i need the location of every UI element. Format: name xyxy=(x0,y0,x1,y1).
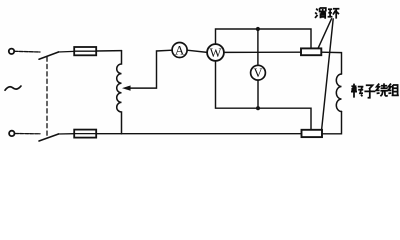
绕 right 尧 xyxy=(380,83,387,96)
fuse FU2 element wire xyxy=(74,133,96,135)
fuse FU1 (top) xyxy=(74,47,96,55)
组 left 纟 xyxy=(388,84,391,94)
绕 left 纟 xyxy=(376,84,379,94)
label 滑环 (slip rings), hand-drawn glyph strokes xyxy=(315,8,339,19)
wire voltmeter upper lead xyxy=(257,29,259,65)
switch S blade top xyxy=(39,52,59,59)
svg-text:V: V xyxy=(253,66,262,80)
环 left 王 xyxy=(328,9,333,16)
label 转子绕组 (rotor winding), hand-drawn glyph strokes xyxy=(351,83,399,97)
AC source tilde symbol xyxy=(5,86,21,90)
rotor winding coil xyxy=(336,74,341,112)
terminal top (input circle) xyxy=(9,49,14,54)
环 right 不 xyxy=(333,9,339,19)
转 right 专 xyxy=(358,87,364,97)
wire terminal-top to switch xyxy=(14,50,40,53)
terminal bottom (input circle) xyxy=(9,131,14,136)
wire wiper to ammeter riser xyxy=(130,50,173,88)
autotransformer T winding xyxy=(117,51,122,134)
组 right 且 xyxy=(392,85,399,95)
leader line to slip ring upper xyxy=(318,19,332,49)
autotransformer wiper arrow xyxy=(123,86,130,90)
svg-text:A: A xyxy=(175,42,185,57)
switch linkage (dashed) xyxy=(46,57,48,136)
wire voltmeter lower lead xyxy=(257,80,259,108)
voltmeter V xyxy=(251,65,266,80)
svg-text:W: W xyxy=(210,46,222,60)
wire wattmeter bottom to lower rail xyxy=(216,61,312,130)
wire fuse FU1 to autotransformer top xyxy=(96,50,121,52)
wire switch to fuse FU1 xyxy=(58,50,74,53)
ammeter A xyxy=(172,43,187,58)
slip ring lower box xyxy=(302,130,323,137)
junction node top (voltmeter tap) xyxy=(256,27,260,31)
wire slip ring lower to rotor winding xyxy=(322,112,342,134)
fuse FU1 element wire xyxy=(74,50,96,52)
转 left 车 xyxy=(351,84,357,98)
fuse FU2 (bottom) xyxy=(74,130,96,138)
wire slip ring upper to rotor winding xyxy=(321,52,341,74)
bottom rail wire fuse FU2 to slip ring lower xyxy=(96,133,301,135)
wire ammeter to wattmeter xyxy=(187,50,207,52)
switch S blade bottom xyxy=(39,134,59,141)
wire wattmeter right to slip ring upper xyxy=(224,51,301,53)
滑 right part 骨/月 xyxy=(320,8,326,19)
wire switch to fuse FU2 xyxy=(58,133,74,135)
junction node bottom (voltmeter tap) xyxy=(256,106,260,110)
wire terminal-bottom to switch xyxy=(15,133,40,135)
子 xyxy=(364,85,375,98)
slip ring upper box xyxy=(301,48,321,55)
leader line to slip ring lower xyxy=(322,19,334,130)
wattmeter W xyxy=(207,44,224,61)
wire wattmeter top to upper rail xyxy=(216,29,312,48)
滑 water radical xyxy=(315,9,318,18)
